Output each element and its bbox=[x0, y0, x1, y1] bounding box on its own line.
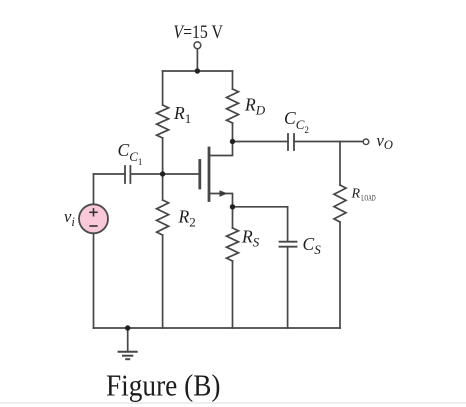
source vi bbox=[79, 204, 108, 233]
svg-text:Figure (B): Figure (B) bbox=[106, 368, 221, 403]
wire CS bottom bbox=[287, 247, 289, 328]
svg-text:LOAD: LOAD bbox=[361, 194, 375, 203]
wire RD top bbox=[232, 71, 234, 89]
svg-text:CC2: CC2 bbox=[284, 108, 309, 135]
node vO terminal bbox=[363, 139, 369, 145]
wire RD bottom to drain node bbox=[232, 123, 234, 142]
resistor RD bbox=[227, 89, 239, 123]
transistor Q1 gate bar bbox=[198, 161, 201, 189]
wire R1 bottom to gate node bbox=[162, 138, 164, 174]
faint page rule bbox=[0, 402, 466, 404]
svg-text:R: R bbox=[351, 187, 361, 202]
capacitor CC2 bbox=[288, 134, 294, 150]
capacitor CS bbox=[280, 242, 297, 247]
resistor RLOAD bbox=[334, 185, 346, 222]
svg-text:CS: CS bbox=[303, 234, 322, 257]
wire RS top bbox=[232, 207, 234, 228]
wire top rail bbox=[163, 70, 233, 72]
wire R2 bottom bbox=[162, 235, 164, 328]
resistor R1 bbox=[157, 105, 169, 138]
node junction ground bbox=[125, 325, 130, 330]
wire source node to CS bbox=[233, 206, 288, 208]
wire R2 top bbox=[162, 174, 164, 200]
wire supply stem bbox=[196, 49, 198, 71]
wire RS bottom bbox=[232, 261, 234, 328]
node junction gate bbox=[160, 171, 165, 176]
svg-text:CC1: CC1 bbox=[118, 140, 143, 167]
transistor Q1 source lead bbox=[209, 194, 233, 207]
wire input left vertical top bbox=[93, 174, 95, 204]
node junction source bbox=[230, 204, 235, 209]
resistor RS bbox=[227, 228, 239, 261]
wire gate rail right bbox=[130, 173, 198, 175]
wire output rail left bbox=[233, 141, 289, 143]
wire R1 top bbox=[162, 71, 164, 105]
svg-text:RS: RS bbox=[241, 227, 260, 250]
node supply terminal bbox=[194, 42, 201, 49]
ground bbox=[118, 352, 138, 360]
capacitor CC1 bbox=[125, 166, 130, 183]
wire gate rail left bbox=[94, 173, 126, 175]
transistor Q1 source arrow bbox=[220, 190, 228, 197]
wire RLOAD top bbox=[339, 142, 341, 186]
svg-text:vO: vO bbox=[377, 131, 393, 152]
resistor R2 bbox=[157, 200, 169, 235]
wire bottom rail bbox=[94, 327, 341, 329]
ground stem bbox=[127, 328, 129, 351]
node junction drain bbox=[230, 139, 235, 144]
wire CS top bbox=[287, 207, 289, 242]
node junction top rail bbox=[195, 68, 200, 73]
svg-text:V=15 V: V=15 V bbox=[173, 22, 223, 43]
wire vi bottom bbox=[93, 233, 95, 328]
svg-text:R1: R1 bbox=[173, 103, 191, 126]
svg-text:RD: RD bbox=[244, 95, 266, 118]
wire output rail right bbox=[294, 141, 363, 143]
transistor Q1 drain lead bbox=[209, 142, 233, 156]
svg-text:vi: vi bbox=[64, 207, 75, 229]
wire RLOAD bottom bbox=[339, 222, 341, 328]
transistor Q1 channel bar bbox=[208, 148, 211, 201]
svg-text:R2: R2 bbox=[178, 207, 196, 230]
